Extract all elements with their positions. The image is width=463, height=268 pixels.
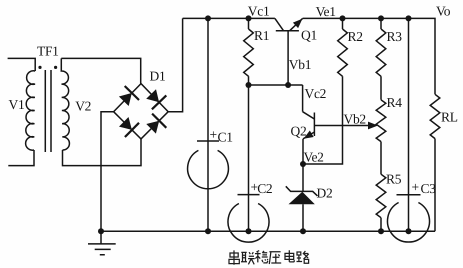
char 路 (297, 251, 309, 263)
wire: top rail Ve1 section to Vo corner and RL lead (303, 18, 435, 94)
wire: bridge plus (right corner) up to top rail (168, 18, 182, 111)
transistor Q1 emitter (290, 18, 303, 30)
svg-text:R1: R1 (254, 28, 269, 43)
svg-text:D1: D1 (150, 69, 166, 84)
transformer core (45, 70, 51, 152)
svg-text:+: + (412, 180, 419, 195)
ground symbol (88, 231, 116, 255)
svg-text:Vc2: Vc2 (305, 86, 327, 101)
wire: AC input stub bottom-left (8, 150, 34, 166)
wire: top rail Vc1 section (183, 17, 275, 19)
capacitor C1 lead (207, 18, 209, 231)
svg-text:Vb2: Vb2 (344, 112, 366, 127)
capacitor C3 shell (388, 203, 430, 243)
capacitor C2 shell (228, 204, 269, 243)
svg-text:Q1: Q1 (301, 27, 317, 42)
svg-text:R5: R5 (386, 172, 402, 187)
wire: Q1 base lead down to Vb1 node (287, 31, 289, 85)
transistor Q2 collector diagonal (303, 112, 315, 119)
node dot Vb1 at R1 (246, 82, 252, 88)
capacitor C1 shell (188, 150, 229, 188)
resistor R3 (376, 18, 386, 99)
svg-text:V1: V1 (9, 97, 25, 112)
svg-text:Vc1: Vc1 (248, 4, 270, 19)
R4 wiper arrow (368, 122, 378, 130)
node dot ground R5 (378, 228, 384, 234)
svg-text:Q2: Q2 (291, 124, 307, 139)
capacitor C2 plate (238, 194, 260, 196)
svg-text:TF1: TF1 (37, 44, 59, 59)
capacitor C1 plate (197, 140, 219, 142)
wire: ground rail (101, 230, 435, 232)
char 电 (285, 250, 294, 262)
capacitor C3 lead (408, 18, 410, 231)
char 稳 (255, 251, 268, 263)
node dot top rail C1 (205, 15, 211, 21)
char 压 (269, 252, 281, 264)
wire: V2 bottom to bridge bottom corner (63, 139, 142, 166)
node dot ground C1 (205, 228, 211, 234)
svg-text:R4: R4 (387, 95, 403, 110)
svg-text:R2: R2 (348, 29, 363, 44)
transformer TF1 secondary winding V2 (61, 58, 69, 150)
resistor RL (430, 94, 440, 231)
capacitor C2 lead (248, 85, 250, 231)
svg-text:V2: V2 (75, 99, 91, 114)
wire: V2 top to bridge top corner (61, 58, 140, 83)
caption 串联稳压电路 drawn as strokes (229, 250, 309, 265)
svg-text:Vo: Vo (436, 3, 451, 18)
node dot Ve2 (300, 161, 306, 167)
transistor Q2 base bar (313, 113, 315, 137)
node dot Ve1/R2 (340, 15, 346, 21)
transistor Q1 emitter arrow (293, 19, 303, 28)
diode D1 lower-right (146, 114, 166, 134)
transformer TF1 primary winding V1 (26, 71, 36, 150)
capacitor C3 plate (397, 194, 421, 196)
transistor Q2 emitter arrow (304, 131, 314, 139)
zener diode D2 cathode bar with wings (286, 186, 318, 196)
wire: D2 anode to ground rail (302, 204, 304, 231)
diode D1 upper-left (119, 86, 139, 106)
wire: Q2 emitter down to D2 (302, 139, 304, 192)
node dot ground D2 (300, 228, 306, 234)
zener diode D2 triangle (289, 192, 315, 204)
svg-text:R3: R3 (387, 29, 403, 44)
node dot Vb1 at Q1 base (285, 82, 291, 88)
wire: AC input stub top-left (8, 58, 36, 71)
svg-text:Ve1: Ve1 (316, 4, 336, 19)
wire: bridge minus (left corner) down to ground rail (101, 112, 114, 232)
node dot ground left (98, 228, 104, 234)
svg-text:Ve2: Ve2 (304, 150, 324, 165)
resistor R1 (244, 18, 254, 85)
svg-text:C3: C3 (421, 181, 437, 196)
diode D1 lower-left (119, 117, 139, 137)
char 联 (241, 252, 255, 264)
svg-text:+: + (210, 127, 217, 142)
transistor Q2 emitter diagonal (303, 132, 314, 139)
svg-text:C1: C1 (218, 130, 233, 145)
wire: Ve2 node to R2 bottom (303, 76, 343, 164)
transistor Q1 base bar (276, 30, 299, 32)
diode D1 upper-right (146, 89, 166, 109)
node dot ground C3 (406, 228, 412, 234)
svg-text:Vb1: Vb1 (289, 57, 311, 72)
char 串 (229, 250, 239, 264)
potentiometer R4 (376, 100, 386, 174)
polarity dot primary (38, 66, 41, 69)
wire: Vb1 to Q2 collector (302, 85, 304, 112)
node dot R3 top (378, 15, 384, 21)
svg-text:D2: D2 (317, 186, 333, 201)
svg-text:C2: C2 (257, 181, 272, 196)
node dot Vc1 (246, 15, 252, 21)
bridge rectifier D1 diamond (114, 84, 169, 139)
resistor R2 (338, 18, 348, 76)
svg-text:RL: RL (441, 110, 458, 125)
wire: Q2 base lead to R4 wiper (314, 125, 369, 127)
node dot C3 top (406, 15, 412, 21)
polarity dot secondary (54, 66, 57, 69)
node dot ground C2 (246, 228, 252, 234)
transistor Q1 collector (275, 18, 284, 30)
wire: Vb1 node horizontal (249, 84, 303, 86)
resistor R5 (376, 174, 386, 231)
